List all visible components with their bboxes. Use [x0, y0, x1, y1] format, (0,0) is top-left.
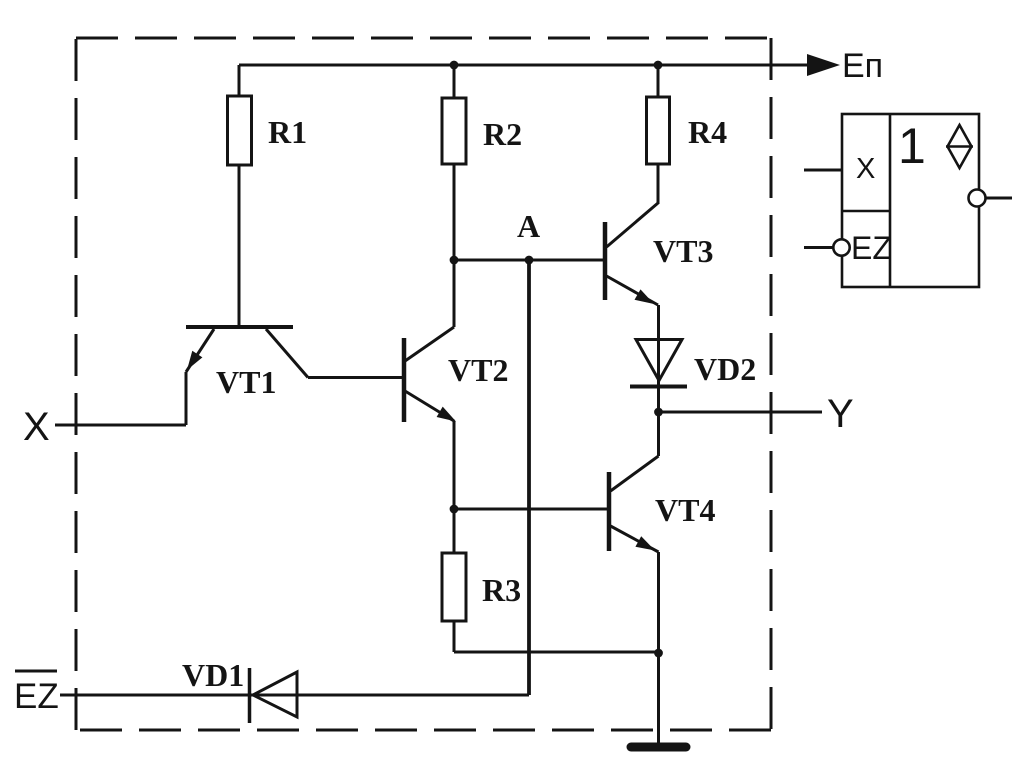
- transistor VT2: [404, 260, 456, 553]
- VT4 emitter arrow: [635, 536, 655, 550]
- wire: input X: [55, 424, 186, 427]
- wire: U1 input EZ: [804, 246, 833, 249]
- resistor R4: [647, 65, 670, 204]
- VT4 collector segment: [611, 456, 659, 491]
- svg-text:VD2: VD2: [694, 351, 756, 387]
- U1 EZ inversion circle: [833, 239, 849, 255]
- wire: R2 top lead to rail: [453, 65, 456, 98]
- VD1 cathode bar: [248, 668, 252, 723]
- U1 output inversion circle: [969, 190, 986, 207]
- VT3 emitter segment: [607, 276, 659, 305]
- svg-text:A: A: [517, 208, 540, 244]
- R1 body: [228, 96, 252, 165]
- transistor VT1: [186, 327, 308, 425]
- VT4 emitter segment: [611, 526, 659, 552]
- transistor VT4: [609, 412, 659, 743]
- VT2 base bar: [402, 338, 407, 422]
- junction on rail at R2: [450, 61, 459, 70]
- svg-text:1: 1: [898, 118, 926, 174]
- svg-text:R3: R3: [482, 572, 521, 608]
- svg-text:EZ: EZ: [14, 677, 59, 716]
- svg-text:VT2: VT2: [448, 352, 508, 388]
- wire: node A down to VD1 anode line: [527, 260, 531, 695]
- VT3 collector segment: [607, 203, 659, 247]
- ground: [631, 743, 686, 752]
- U1 input cell divider: [842, 210, 890, 213]
- wire: VT3 collector up to R4: [657, 164, 660, 203]
- VT2 emitter segment: [405, 391, 454, 421]
- VT2 emitter arrow: [437, 407, 456, 422]
- svg-text:X: X: [856, 153, 875, 185]
- wire: node A horizontal to VT3 base: [454, 259, 603, 262]
- svg-text:Eп: Eп: [842, 47, 883, 85]
- VD2 anode triangle: [636, 340, 682, 381]
- transistor VT3: [605, 164, 659, 412]
- diode VD1: [250, 668, 298, 723]
- wire: VT2 emitter to VT4 base: [454, 508, 607, 511]
- wire: VT2 collector up to node A: [453, 260, 456, 327]
- R3 body: [442, 553, 466, 621]
- wire: VT4 emitter down to ground: [657, 552, 660, 743]
- wire: VT3 emitter down through VD2 to Y node: [657, 305, 660, 412]
- wire: R2 bottom lead to node A: [453, 164, 456, 260]
- wire: VT4 collector up to Y node: [657, 412, 660, 456]
- wire: R4 bottom lead to VT3 collector: [657, 164, 660, 204]
- wire: U1 input X: [804, 169, 842, 172]
- VT4 base bar: [607, 472, 612, 551]
- wire: VT1 emitter down to X line: [185, 372, 188, 425]
- VT2 collector segment: [405, 327, 454, 361]
- VT1 emitter segment: [186, 329, 214, 372]
- junction VT2 emitter / VT4 base / R3: [450, 505, 459, 514]
- VT3 emitter arrow: [635, 289, 655, 304]
- junction at VT4 emitter: [654, 649, 663, 658]
- svg-text:X: X: [23, 405, 50, 449]
- R2 body: [442, 98, 466, 164]
- wire: U1 output: [986, 197, 1013, 200]
- VT1 emitter arrow: [187, 351, 202, 370]
- VT3 base bar: [603, 222, 608, 300]
- VT1 collector segment: [266, 329, 308, 378]
- junction on rail at R4: [654, 61, 663, 70]
- wire: R3 bottom lead: [453, 621, 456, 652]
- svg-text:VT4: VT4: [655, 492, 715, 528]
- resistor R1: [228, 65, 252, 325]
- node A junction: [525, 256, 534, 265]
- wire: R1 top lead to rail: [238, 65, 241, 96]
- VD1 anode triangle: [253, 672, 297, 717]
- svg-text:VT3: VT3: [653, 233, 713, 269]
- wire: R3 to VT4 emitter: [454, 651, 659, 654]
- resistor R3: [442, 553, 659, 652]
- svg-text:EZ: EZ: [851, 230, 892, 266]
- Ep arrowhead: [807, 54, 840, 76]
- junction R2/VT2 collector: [450, 256, 459, 265]
- R4 body: [647, 97, 670, 164]
- resistor R2: [442, 65, 466, 260]
- wire: VT2 emitter down to R3: [453, 421, 456, 553]
- U1 open-collector output qualifier diamond: [948, 125, 972, 168]
- wire: power rail to Ep terminal: [239, 64, 808, 67]
- diode VD2: [630, 340, 687, 387]
- wire: VT1 collector to VT2 base: [308, 376, 403, 379]
- wire: output Y: [659, 411, 823, 414]
- VD2 cathode bar: [630, 385, 687, 389]
- EZ port overline: [15, 670, 57, 673]
- svg-text:R2: R2: [483, 116, 522, 152]
- junction at output Y node: [654, 408, 663, 417]
- wire: R4 top lead to rail: [657, 65, 660, 97]
- svg-text:Y: Y: [827, 392, 854, 436]
- U1 inner divider: [889, 114, 892, 287]
- wire: input EZ to VD1 and node A branch: [60, 694, 529, 697]
- svg-text:R1: R1: [268, 114, 307, 150]
- svg-text:R4: R4: [688, 114, 727, 150]
- wire: R1 bottom lead to VT1 base: [238, 165, 241, 325]
- svg-text:VD1: VD1: [182, 657, 244, 693]
- svg-text:VT1: VT1: [216, 364, 276, 400]
- logic symbol U1 outline: [842, 114, 979, 287]
- dashed boundary box of the IC: [76, 38, 771, 730]
- VT1 base bar: [186, 325, 293, 329]
